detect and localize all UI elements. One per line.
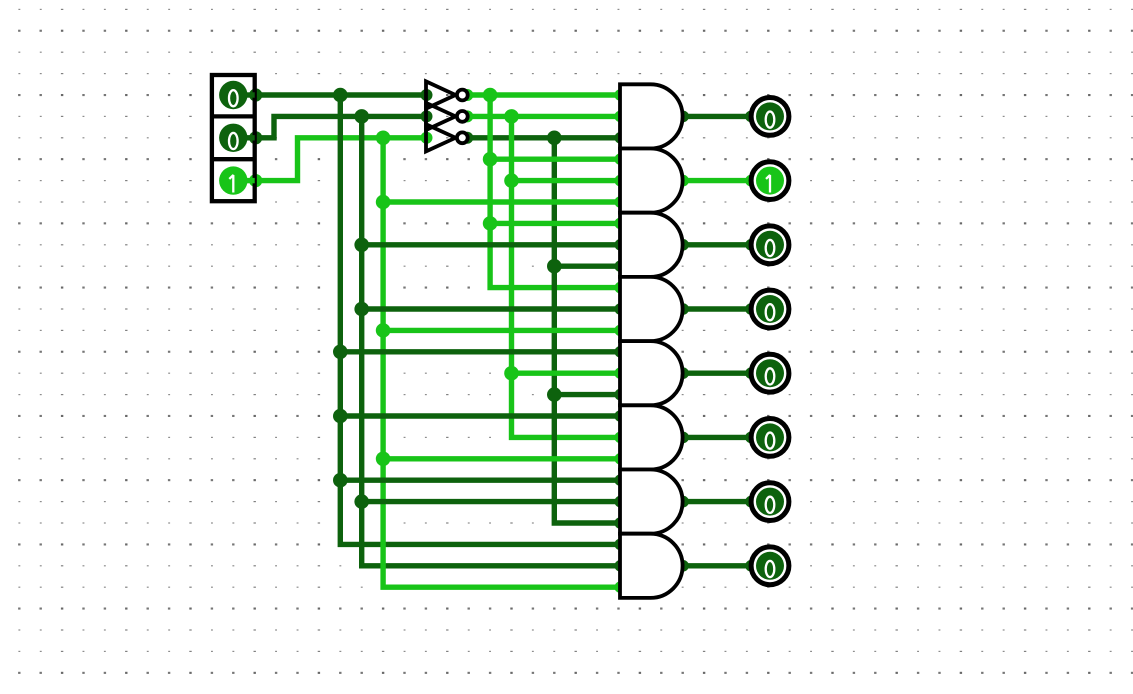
- connection dot at LED D4 input: [745, 303, 757, 315]
- connection dot at gate G4 input row 15: [615, 325, 627, 337]
- connection dot at gate G5 input row 16: [615, 346, 627, 358]
- connection dot at gate G7 output: [677, 496, 689, 508]
- bus V5 vertical (signal NOT-B) ending at gate G6 input 2: [512, 116, 621, 437]
- wire A from input pin A to inverter U1 input: [255, 92, 426, 97]
- junction NOT-B / bus V5: [504, 109, 519, 124]
- connection dot at gate G3 input row 10: [615, 218, 627, 230]
- connection dot at gate G1 input row 4: [615, 89, 627, 101]
- AND gate G5: [620, 341, 683, 405]
- AND gate G8: [620, 534, 683, 598]
- connection dot at gate G2 output: [677, 175, 689, 187]
- connection dot at gate G1 output: [677, 111, 689, 123]
- wire B to gate G4 input 2: [362, 306, 620, 311]
- wire gate G5 output to LED D5: [683, 371, 751, 376]
- inverter U2: [426, 103, 468, 130]
- wire C to gate G4 input 3: [383, 328, 620, 333]
- inverter U1: [426, 81, 468, 108]
- bus V3 vertical (signal C) ending at gate G8 input 3: [383, 138, 620, 587]
- AND gate G4: [620, 277, 683, 341]
- junction C / bus V3: [376, 131, 391, 146]
- junction on bus at row 22 (A to gate G7 input 1): [333, 473, 348, 488]
- AND gate G2: [620, 149, 683, 213]
- wire gate G8 output to LED D8: [683, 563, 751, 568]
- junction A / bus V1: [333, 88, 348, 103]
- connection dot at gate G5 output: [677, 367, 689, 379]
- LED output D8 (value 0): [751, 547, 789, 585]
- junction on bus at row 18 (NOT-C to gate G5 input 3): [547, 387, 562, 402]
- connection dot at gate G6 output: [677, 432, 689, 444]
- connection dot at inverter U2 output: [461, 110, 473, 122]
- connection dot at input pin B port: [249, 131, 262, 144]
- input pin block frame: [212, 75, 255, 201]
- junction on bus at row 12 (NOT-C to gate G3 input 3): [547, 259, 562, 274]
- AND gate G3: [620, 213, 683, 277]
- wire NOT-A to gate G2 input 1: [490, 156, 620, 161]
- input pin A (value 0): [219, 81, 255, 109]
- connection dot at gate G3 input row 11: [615, 239, 627, 251]
- wire A to gate G6 input 1: [340, 413, 620, 418]
- connection dot at input pin A port: [249, 88, 262, 101]
- wire NOT-C to gate G3 input 3: [554, 264, 620, 269]
- connection dot at inverter U2 input: [421, 110, 433, 122]
- wire B to gate G7 input 2: [362, 499, 620, 504]
- wire gate G3 output to LED D3: [683, 242, 751, 247]
- input pin B (value 0): [219, 124, 255, 152]
- wire NOT-B from U2 output to gate G1 input 2: [469, 114, 621, 119]
- connection dot at gate G4 input row 13: [615, 282, 627, 294]
- wire NOT-C from U3 output to gate G1 input 3: [469, 135, 621, 140]
- wire gate G4 output to LED D4: [683, 306, 751, 311]
- input pin C (value 1): [219, 166, 255, 194]
- LED output D5 (value 0): [751, 354, 789, 392]
- AND gate G7: [620, 470, 683, 534]
- LED output D6 (value 0): [751, 419, 789, 457]
- LED output D4 (value 0): [751, 290, 789, 328]
- connection dot at gate G6 input row 21: [615, 453, 627, 465]
- wire A to gate G7 input 1: [340, 478, 620, 483]
- connection dot at inverter U1 input: [421, 89, 433, 101]
- wire NOT-A to gate G3 input 1: [490, 221, 620, 226]
- wire NOT-B to gate G5 input 2: [512, 371, 621, 376]
- junction NOT-A / bus V4: [483, 88, 498, 103]
- connection dot at LED D7 input: [745, 496, 757, 508]
- wire C to gate G2 input 3: [383, 199, 620, 204]
- AND gate G1: [620, 84, 683, 148]
- wire NOT-B to gate G2 input 2: [512, 178, 621, 183]
- connection dot at LED D1 input: [745, 111, 757, 123]
- connection dot at gate G4 output: [677, 303, 689, 315]
- connection dot at gate G8 input row 26: [615, 560, 627, 572]
- connection dot at gate G3 input row 12: [615, 260, 627, 272]
- connection dot at LED D2 input: [745, 175, 757, 187]
- connection dot at inverter U3 output: [461, 132, 473, 144]
- connection dot at inverter U1 output: [461, 89, 473, 101]
- connection dot at gate G1 input row 6: [615, 132, 627, 144]
- connection dot at gate G8 input row 27: [615, 581, 627, 593]
- junction on bus at row 11 (B to gate G3 input 2): [354, 238, 369, 253]
- connection dot at gate G8 output: [677, 560, 689, 572]
- connection dot at gate G2 input row 8: [615, 175, 627, 187]
- wire C to gate G6 input 3: [383, 456, 620, 461]
- wire NOT-A from U1 output to gate G1 input 1: [469, 92, 621, 97]
- wire gate G7 output to LED D7: [683, 499, 751, 504]
- connection dot at gate G2 input row 9: [615, 196, 627, 208]
- connection dot at gate G6 input row 19: [615, 410, 627, 422]
- connection dot at gate G6 input row 20: [615, 432, 627, 444]
- connection dot at input pin C port: [249, 174, 262, 187]
- connection dot at gate G1 input row 5: [615, 111, 627, 123]
- connection dot at gate G7 input row 23: [615, 496, 627, 508]
- junction B / bus V2: [354, 109, 369, 124]
- connection dot at gate G3 output: [677, 239, 689, 251]
- wire NOT-C to gate G5 input 3: [554, 392, 620, 397]
- junction on bus at row 14 (B to gate G4 input 2): [354, 302, 369, 317]
- LED output D2 (value 1): [751, 162, 789, 200]
- connection dot at gate G7 input row 22: [615, 474, 627, 486]
- connection dot at inverter U3 input: [421, 132, 433, 144]
- connection dot at gate G8 input row 25: [615, 539, 627, 551]
- wire C from input pin C to inverter U3 input: [255, 138, 428, 181]
- junction on bus at row 16 (A to gate G5 input 1): [333, 345, 348, 360]
- wire gate G2 output to LED D2: [683, 178, 751, 183]
- junction NOT-C / bus V6: [547, 131, 562, 146]
- wire gate G6 output to LED D6: [683, 435, 751, 440]
- junction on bus at row 10 (NOT-A to gate G3 input 1): [483, 216, 498, 231]
- connection dot at gate G2 input row 7: [615, 153, 627, 165]
- connection dot at gate G5 input row 17: [615, 367, 627, 379]
- connection dot at gate G4 input row 14: [615, 303, 627, 315]
- wire B from input pin B to inverter U2 input: [255, 116, 428, 137]
- junction on bus at row 15 (C to gate G4 input 3): [376, 323, 391, 338]
- bus V1 vertical (signal A) ending at gate G8 input 1: [340, 95, 620, 544]
- LED output D7 (value 0): [751, 483, 789, 521]
- connection dot at LED D8 input: [745, 560, 757, 572]
- LED output D3 (value 0): [751, 226, 789, 264]
- LED output D1 (value 0): [751, 98, 789, 136]
- AND gate G6: [620, 405, 683, 469]
- connection dot at LED D5 input: [745, 367, 757, 379]
- inverter U3: [426, 124, 468, 151]
- bus V4 vertical (signal NOT-A) ending at gate G4 input 1: [490, 95, 620, 288]
- junction on bus at row 7 (NOT-A to gate G2 input 1): [483, 152, 498, 167]
- connection dot at gate G7 input row 24: [615, 517, 627, 529]
- junction on bus at row 17 (NOT-B to gate G5 input 2): [504, 366, 519, 381]
- junction on bus at row 8 (NOT-B to gate G2 input 2): [504, 173, 519, 188]
- wire gate G1 output to LED D1: [683, 114, 751, 119]
- bus V6 vertical (signal NOT-C) ending at gate G7 input 3: [554, 138, 620, 523]
- junction on bus at row 9 (C to gate G2 input 3): [376, 195, 391, 210]
- junction on bus at row 23 (B to gate G7 input 2): [354, 494, 369, 509]
- wire B to gate G3 input 2: [362, 242, 620, 247]
- junction on bus at row 19 (A to gate G6 input 1): [333, 409, 348, 424]
- bus V2 vertical (signal B) ending at gate G8 input 2: [362, 116, 620, 565]
- wire A to gate G5 input 1: [340, 349, 620, 354]
- connection dot at LED D6 input: [745, 432, 757, 444]
- connection dot at gate G5 input row 18: [615, 389, 627, 401]
- junction on bus at row 21 (C to gate G6 input 3): [376, 452, 391, 467]
- connection dot at LED D3 input: [745, 239, 757, 251]
